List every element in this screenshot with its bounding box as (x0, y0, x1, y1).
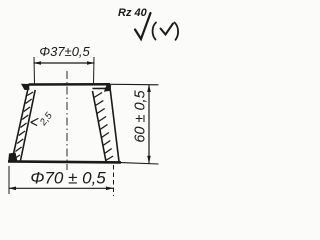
extension line Phi70 right (dashed) (113, 165, 115, 196)
arrow right Phi37 (87, 61, 95, 65)
arrow down 60 (147, 156, 151, 164)
dimension line Phi70 (9, 187, 114, 189)
left wall bottom blob (8, 153, 17, 162)
part bottom edge (8, 161, 121, 162)
extension line Phi37 left (33, 57, 36, 85)
centerline (66, 71, 68, 170)
svg-text:Φ70 ± 0,5: Φ70 ± 0,5 (30, 169, 106, 188)
left wall inner line (21, 90, 36, 161)
extension line 60 bottom (121, 163, 159, 164)
part top edge (29, 83, 111, 86)
right wall outer line (110, 86, 119, 162)
right wall hatching (94, 93, 113, 161)
right rim (93, 87, 108, 89)
arrow left Phi70 (9, 187, 17, 191)
left wall hatching (14, 92, 33, 159)
extension line 60 top (110, 83, 159, 86)
left wall outer line (12, 85, 29, 161)
extension line Phi37 right (93, 57, 96, 85)
thickness leader arrow (31, 118, 39, 125)
arrow right Phi70 (106, 187, 114, 191)
parenthesis right (175, 23, 179, 40)
right rim hook (104, 85, 111, 92)
left rim blob (21, 84, 30, 90)
small check in parens (161, 24, 174, 35)
svg-text:Rz 40: Rz 40 (118, 7, 148, 19)
extension line Phi70 left (8, 166, 10, 194)
right wall inner line (93, 91, 107, 162)
parenthesis left (153, 23, 156, 40)
svg-text:60 ± 0,5: 60 ± 0,5 (133, 89, 149, 142)
svg-text:Φ37±0,5: Φ37±0,5 (39, 44, 90, 59)
arrow up 60 (147, 85, 151, 93)
dimension line 60 vertical (148, 85, 150, 164)
roughness check symbol (135, 13, 151, 39)
dimension line Phi37 (34, 62, 95, 64)
arrow left Phi37 (34, 61, 42, 65)
svg-text:2,5: 2,5 (37, 110, 55, 129)
